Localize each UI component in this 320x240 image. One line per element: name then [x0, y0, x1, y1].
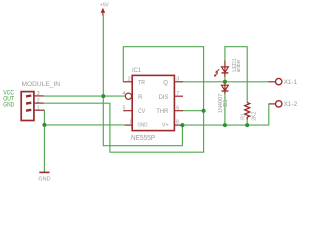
svg-text:V+: V+: [162, 123, 170, 129]
supply +5V arrow: [100, 2, 109, 15]
wire: module GND down, to 555 GND pin1 and ground symbol: [43, 110, 46, 172]
wire: D1 cathode down to V+ rail: [224, 94, 226, 126]
junction on +5V at VCC wire: [101, 94, 105, 98]
svg-text:3: 3: [37, 91, 40, 97]
junction D1 on rail: [223, 123, 227, 127]
pad X1-1: [268, 78, 297, 86]
svg-text:+5V: +5V: [100, 2, 109, 8]
emission arrows: [217, 69, 220, 72]
pin 2 stub: [34, 102, 44, 104]
svg-text:6: 6: [176, 105, 179, 111]
wire: long vertical x=203.6 from top bus to bottom run: [203, 47, 205, 153]
svg-text:8: 8: [176, 120, 179, 126]
junction THR/OUT net: [202, 109, 206, 113]
junction GND net: [42, 123, 46, 127]
svg-text:3: 3: [176, 76, 179, 82]
ground symbol GND: [38, 172, 50, 182]
svg-text:R: R: [138, 94, 143, 101]
pad X1-2: [269, 101, 298, 108]
svg-text:D1: D1: [223, 100, 229, 107]
svg-text:1: 1: [129, 120, 132, 126]
svg-text:2K2: 2K2: [252, 111, 258, 120]
wire: LED top feed: [224, 47, 226, 61]
pin 5 CV stub: [123, 110, 132, 112]
pin 6 THR stub: [174, 110, 183, 112]
svg-text:TR: TR: [138, 80, 146, 87]
junction Q/LED/D1: [223, 80, 227, 84]
svg-text:NE555P: NE555P: [131, 135, 156, 142]
wire: +5V bottom run to pin8 junction: [103, 125, 182, 146]
wire: module OUT pin2 run down and right: [44, 103, 204, 152]
svg-text:R1: R1: [240, 113, 246, 120]
wire: module VCC pin3 to +5V rail and on to 555 pin4 R: [44, 95, 126, 97]
pin 1 stub: [34, 109, 44, 111]
svg-text:7: 7: [176, 91, 179, 97]
pin 1 GND stub: [125, 124, 133, 126]
svg-text:GND: GND: [3, 103, 14, 109]
wire: R1 bottom to V+ rail: [246, 120, 248, 126]
svg-text:Q: Q: [163, 80, 168, 87]
pin 2 TR stub: [123, 81, 132, 83]
svg-text:CV: CV: [138, 108, 146, 115]
pin 4 R bubble: [125, 93, 131, 99]
wire: LED cathode to Q junction: [224, 77, 226, 82]
pin 3 stub: [34, 95, 44, 97]
svg-text:DIS: DIS: [159, 94, 169, 101]
wire: THR pin6 to junction: [183, 110, 204, 112]
wire: +5V vertical rail x=103.3 from supply to lower bend: [102, 15, 104, 146]
pin 7 DIS stub: [174, 95, 183, 97]
wire: V+ rail y=125.1 to X1-2 riser: [182, 104, 268, 125]
svg-text:GND: GND: [38, 177, 50, 183]
junction V+ pin8: [180, 123, 184, 127]
svg-text:4: 4: [123, 91, 126, 97]
svg-text:GND: GND: [138, 123, 148, 129]
svg-text:IC1: IC1: [132, 67, 141, 74]
svg-text:MODULE_IN: MODULE_IN: [22, 81, 61, 88]
diode LED1 amber: [214, 58, 242, 76]
wire: TR pin2 riser and top bus: [123, 47, 203, 82]
connector MODULE_IN: [3, 81, 60, 121]
pin 8 V+ stub: [174, 124, 182, 126]
pin wedge marks: [26, 94, 31, 97]
resistor R1 2K2: [240, 103, 257, 121]
junction R1 on rail: [245, 123, 249, 127]
pin 3 Q stub: [174, 81, 183, 83]
svg-text:2: 2: [128, 76, 131, 82]
wire: Q pin3 line to X1-1: [183, 81, 268, 83]
diode D1 1N4007: [218, 82, 229, 113]
svg-text:2: 2: [37, 98, 40, 104]
svg-text:THR: THR: [156, 108, 169, 115]
svg-text:X1-2: X1-2: [284, 101, 298, 108]
svg-text:1: 1: [37, 106, 40, 112]
svg-text:X1-1: X1-1: [284, 79, 298, 86]
svg-text:5: 5: [123, 105, 126, 111]
svg-text:amber: amber: [236, 59, 242, 72]
op IC1 NE555P: [123, 67, 184, 142]
wire: top bus to R1 column: [225, 47, 247, 103]
